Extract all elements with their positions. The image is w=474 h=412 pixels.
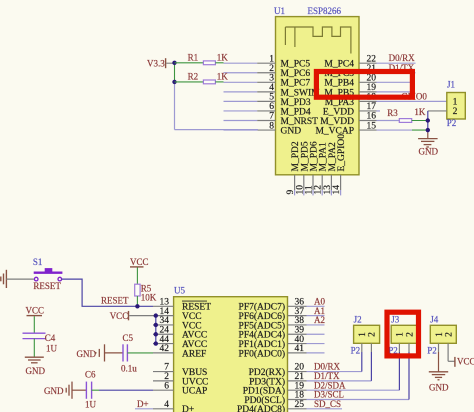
svg-text:4: 4 — [269, 83, 274, 93]
wire J1 pin2 to GND rail — [428, 111, 447, 133]
svg-text:1K: 1K — [414, 107, 426, 117]
svg-text:GND: GND — [429, 382, 449, 392]
svg-text:17: 17 — [367, 102, 377, 112]
svg-text:6: 6 — [269, 102, 274, 112]
ground symbol below C4 — [25, 357, 46, 376]
svg-text:D+: D+ — [137, 399, 149, 409]
U1 pin 1 M_PC5 (left) — [224, 54, 311, 69]
junction node VCC rail row 2 — [154, 323, 158, 327]
U5 pin 37 PF6(ADC6) (right) — [239, 307, 325, 322]
junction node VCC rail row 4 — [154, 341, 158, 345]
wire J4 pin2 to VCC — [448, 343, 455, 361]
svg-text:C4: C4 — [45, 333, 56, 343]
U1 pin 17 E_VDD (right) — [323, 102, 380, 117]
label P2 (J1) — [447, 118, 457, 128]
svg-text:M_PC7: M_PC7 — [281, 79, 311, 89]
wire V3.3 rail vertical — [175, 63, 259, 130]
U5 pin 13 RESET (left) — [153, 298, 211, 313]
junction node M_VCAP/GND — [426, 128, 430, 132]
junction node VCC rail row 1 — [154, 313, 158, 317]
U5 pin 40 PF1(ADC1) (right) — [239, 335, 325, 350]
designator U1 — [274, 6, 285, 16]
svg-text:J2: J2 — [354, 315, 362, 325]
svg-text:S1: S1 — [33, 257, 43, 267]
svg-text:2: 2 — [405, 332, 415, 337]
svg-text:A2: A2 — [314, 315, 325, 325]
svg-text:GND: GND — [26, 366, 46, 376]
svg-text:1K: 1K — [217, 53, 229, 63]
svg-text:14: 14 — [332, 185, 342, 195]
designator U5 — [174, 286, 185, 296]
svg-text:E_GPIO0: E_GPIO0 — [337, 134, 347, 172]
connector J3 — [391, 325, 417, 343]
svg-text:1: 1 — [396, 332, 406, 337]
net label D1/TX (U1 pin 21) — [389, 63, 415, 73]
label P2 (J2) — [351, 346, 361, 356]
U1 pin 11 M_PD6 (bottom) — [305, 141, 320, 195]
svg-text:U1: U1 — [274, 6, 285, 16]
power port VCC above C4 — [26, 306, 45, 334]
svg-text:PF0(ADC0): PF0(ADC0) — [239, 348, 285, 359]
svg-text:M_PC5: M_PC5 — [281, 60, 311, 70]
U5 pin 21 PD3(TX) (right) — [249, 372, 371, 387]
svg-text:UCAP: UCAP — [182, 387, 207, 397]
junction node at R2 — [172, 80, 176, 84]
wire J2 pin1 drop — [361, 343, 363, 371]
designator J4 — [430, 315, 439, 325]
U5 pin 44 AVCC (left) — [153, 335, 207, 350]
U1 pin 3 M_PC7 (left) — [224, 74, 311, 89]
svg-text:4: 4 — [164, 400, 169, 410]
svg-text:U5: U5 — [174, 286, 185, 296]
svg-text:J1: J1 — [447, 80, 455, 90]
connector J4 — [430, 325, 456, 343]
svg-text:15: 15 — [367, 121, 377, 131]
svg-text:P2: P2 — [427, 346, 437, 356]
svg-text:1U: 1U — [85, 399, 97, 409]
U5 pin 7 VBUS (left) — [153, 363, 207, 378]
U5 pin 18 PD0(SCL) (right) — [244, 391, 409, 406]
svg-text:1K: 1K — [217, 72, 229, 82]
highlight box around J3 — [387, 312, 419, 356]
U1 pin 4 M_SWIM (left) — [224, 83, 321, 98]
U5 pin 41 PF0(ADC0) (right) — [239, 344, 325, 359]
svg-text:VCC: VCC — [457, 357, 474, 367]
svg-text:M_PC4: M_PC4 — [324, 60, 354, 70]
net label A2 (U5) — [314, 315, 325, 325]
IC U1 ESP8266 module body — [276, 17, 360, 175]
svg-text:M_PC6: M_PC6 — [281, 69, 311, 79]
label RESET under S1 — [33, 281, 61, 291]
svg-text:GND: GND — [44, 386, 64, 396]
power port VCC above R5 — [130, 257, 149, 285]
value label ESP8266 — [308, 6, 342, 16]
power port VCC (U5 pin 14) — [110, 311, 156, 321]
svg-text:2: 2 — [444, 332, 454, 337]
svg-text:SD_CS: SD_CS — [314, 399, 341, 409]
designator J2 — [354, 315, 362, 325]
U1 pin 9 M_PD2 (bottom) — [286, 141, 301, 195]
net label A0 (U5) — [314, 297, 325, 307]
wire J3 pin2 drop — [408, 343, 410, 399]
highlight box over U1 pins M_PB4/M_PB5 — [316, 72, 412, 98]
U5 pin 24 AVCC (left) — [153, 325, 207, 340]
wire S1 to U5 RESET pin — [62, 279, 153, 306]
U5 pin 42 AREF (left) — [153, 344, 206, 359]
svg-text:10K: 10K — [141, 293, 157, 303]
svg-text:8: 8 — [269, 121, 274, 131]
svg-text:0.1u: 0.1u — [121, 363, 137, 373]
svg-text:R2: R2 — [188, 72, 199, 82]
power port V3.3 — [147, 58, 175, 68]
svg-text:C5: C5 — [123, 333, 134, 343]
designator J3 — [391, 315, 400, 325]
junction node R3/J1 — [426, 118, 430, 122]
svg-text:D+: D+ — [182, 405, 194, 412]
U5 pin 4 D+ (left) — [153, 400, 194, 412]
ground symbol left edge — [1, 270, 7, 288]
U1 pin 18 M_PA3 (right) — [325, 93, 447, 108]
connector J1 — [447, 93, 466, 120]
wire J3 pin1 drop — [398, 343, 400, 390]
resistor R2 1K — [175, 72, 229, 84]
IC U5 MCU body — [174, 297, 288, 412]
U1 pin 22 M_PC4 (right) — [324, 54, 415, 69]
svg-text:RESET: RESET — [101, 295, 129, 305]
svg-text:22: 22 — [367, 54, 377, 64]
svg-text:J3: J3 — [391, 315, 400, 325]
designator J1 — [447, 80, 455, 90]
svg-text:6: 6 — [164, 381, 169, 391]
svg-text:M_VDD: M_VDD — [320, 117, 354, 127]
junction node R5/RESET — [135, 304, 139, 308]
net label RESET — [101, 295, 129, 305]
ground symbol below J1 — [418, 133, 438, 157]
svg-text:20: 20 — [367, 74, 377, 84]
junction node at V3.3/R1 — [172, 61, 176, 65]
svg-text:M_PB4: M_PB4 — [324, 79, 354, 89]
svg-text:2: 2 — [453, 107, 458, 117]
capacitor C5 0.1u — [121, 333, 153, 373]
U5 pin 6 UCAP (left) — [153, 381, 207, 396]
svg-text:1: 1 — [269, 54, 274, 64]
wire J2 pin2 drop — [370, 343, 372, 381]
svg-text:7: 7 — [269, 112, 274, 122]
svg-text:16: 16 — [367, 112, 377, 122]
U1 pin 16 M_VDD (right) — [320, 112, 399, 127]
power port GND at C5 — [77, 344, 124, 361]
U1 pin 5 M_PD3 (left) — [224, 93, 311, 108]
svg-text:M_PD4: M_PD4 — [281, 107, 311, 117]
connector J2 — [354, 325, 380, 343]
U5 pin 14 VCC (left) — [153, 307, 202, 322]
ground symbol below J4 — [429, 372, 449, 393]
U1 pin 21 M_PC3 (right) — [324, 64, 415, 79]
net label D0/RX (U1 pin 22) — [389, 53, 416, 63]
svg-text:R1: R1 — [188, 53, 199, 63]
switch S1 — [34, 268, 63, 281]
svg-text:25: 25 — [295, 400, 305, 410]
net label A1 (U5) — [314, 306, 325, 316]
capacitor C4 1U — [23, 333, 58, 357]
U1 pin 10 M_PD5 (bottom) — [295, 141, 310, 195]
power port VCC right edge — [455, 357, 474, 367]
wire gnd to S1 — [6, 278, 33, 280]
svg-text:PD4(ADC8): PD4(ADC8) — [237, 404, 285, 412]
svg-text:1: 1 — [453, 97, 458, 107]
net label D3/SCL (U5) — [314, 390, 344, 400]
svg-text:1U: 1U — [46, 343, 58, 353]
svg-text:RESET: RESET — [33, 281, 61, 291]
net label SD_CS (U5) — [314, 399, 341, 409]
svg-text:GND: GND — [281, 126, 302, 136]
U5 pin 36 PF7(ADC7) (right) — [239, 298, 325, 313]
net label D0/RX (U5) — [314, 362, 341, 372]
U1 pin 2 M_PC6 (left) — [224, 64, 311, 79]
net label D2/SDA (U5) — [314, 380, 346, 390]
resistor R1 1K — [175, 53, 229, 65]
svg-text:VCC: VCC — [130, 257, 149, 267]
svg-text:1: 1 — [358, 332, 368, 337]
svg-text:AREF: AREF — [182, 349, 206, 359]
net label D1/TX (U5) — [314, 371, 340, 381]
svg-text:1: 1 — [435, 332, 445, 337]
svg-text:V3.3: V3.3 — [147, 58, 165, 68]
svg-text:19: 19 — [367, 83, 377, 93]
wire VCC rail down pins 34/24/44 — [155, 316, 157, 344]
svg-text:5: 5 — [269, 93, 274, 103]
U1 pin 20 M_PB4 (right) — [324, 74, 410, 89]
U1 pin 13 M_PA2 (bottom) — [323, 142, 338, 195]
svg-text:E_VDD: E_VDD — [323, 107, 354, 117]
svg-text:R3: R3 — [387, 108, 398, 118]
svg-text:41: 41 — [295, 344, 305, 354]
U1 pin 19 M_PB5 (right) — [324, 83, 410, 98]
svg-text:P2: P2 — [351, 346, 361, 356]
svg-text:3: 3 — [269, 74, 274, 84]
svg-text:J4: J4 — [430, 315, 439, 325]
svg-text:P2: P2 — [447, 118, 457, 128]
U1 pin 12 M_PA1 (bottom) — [314, 142, 329, 195]
U5 pin 39 PF4(ADC4) (right) — [239, 325, 325, 340]
wire J4 pin1 to ground — [438, 343, 440, 372]
svg-text:VCC: VCC — [110, 311, 129, 321]
U1 pin 6 M_PD4 (left) — [224, 102, 311, 117]
label P2 (J3) — [388, 346, 398, 356]
label P2 (J4) — [427, 346, 437, 356]
U1 pin 8 GND (left) — [224, 121, 302, 136]
U5 pin 19 PD1(SDA) (right) — [243, 381, 400, 396]
U5 pin 38 PF5(ADC5) (right) — [239, 316, 325, 331]
svg-text:GND: GND — [419, 147, 439, 157]
U1 pin 14 E_GPIO0 (bottom) — [332, 134, 347, 196]
svg-text:C6: C6 — [85, 369, 96, 379]
U1 antenna meander graphic — [285, 27, 351, 54]
U1 pin 15 M_VCAP (right) — [315, 121, 427, 136]
net label D+ — [135, 399, 153, 409]
svg-text:M_PD3: M_PD3 — [281, 98, 311, 108]
resistor R3 1K — [387, 107, 428, 122]
power port GND at C6 — [44, 382, 86, 399]
net label GPIO0 (U1 pin 18) — [401, 92, 427, 102]
svg-text:VCC: VCC — [26, 306, 45, 316]
U5 pin 25 PD4(ADC8) (right) — [237, 400, 342, 412]
svg-text:42: 42 — [160, 344, 170, 354]
svg-text:M_VCAP: M_VCAP — [315, 126, 354, 136]
svg-text:ESP8266: ESP8266 — [308, 6, 342, 16]
U5 pin 2 UVCC (left) — [153, 372, 208, 387]
U1 pin 7 M_NRST (left) — [224, 112, 319, 127]
svg-text:2: 2 — [269, 64, 274, 74]
junction node VCC rail row 3 — [154, 332, 158, 336]
U5 pin 34 VCC (left) — [153, 316, 202, 331]
U5 pin 20 PD2(RX) (right) — [249, 363, 362, 378]
capacitor C6 1U — [85, 369, 153, 409]
svg-text:D0/RX: D0/RX — [389, 53, 416, 63]
svg-text:M_NRST: M_NRST — [281, 117, 319, 127]
svg-text:GND: GND — [77, 349, 97, 359]
designator S1 — [33, 257, 43, 267]
resistor R5 10K — [135, 283, 157, 306]
svg-text:2: 2 — [368, 332, 378, 337]
